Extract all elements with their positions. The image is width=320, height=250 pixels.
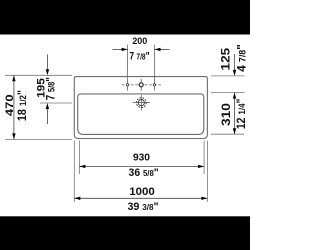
- svg-text:4 7/8": 4 7/8": [234, 44, 248, 72]
- dim 200 left arrowhead: [122, 48, 128, 51]
- washbasin inner bowl outline: [78, 94, 204, 134]
- dim 930 right extension line: [203, 141, 205, 175]
- dim 930 left extension line: [78, 141, 80, 175]
- washbasin outer rim outline: [74, 77, 207, 139]
- svg-text:200: 200: [132, 36, 147, 46]
- centre tap hole: [139, 83, 143, 87]
- dim 310 dimension line: [234, 93, 236, 135]
- dim 470 dimension line: [13, 75, 15, 139]
- bottom letterbox bar: [0, 216, 250, 250]
- svg-text:470: 470: [3, 94, 16, 116]
- svg-text:18 1/2": 18 1/2": [16, 90, 29, 121]
- dim 195 bottom arrowhead (pointing up): [46, 103, 49, 109]
- dim 195 top arrow tail: [46, 55, 48, 72]
- dim 200 right arrowhead: [155, 48, 161, 51]
- top letterbox bar: [0, 0, 250, 35]
- dim 930 left arrowhead: [79, 165, 85, 168]
- centre tap hole vertical line: [140, 79, 142, 91]
- dim 930 right arrowhead: [198, 165, 204, 168]
- svg-text:7 5/8": 7 5/8": [45, 77, 58, 100]
- drain outer dashed ring: [136, 98, 146, 108]
- drain inner circle: [138, 100, 144, 106]
- svg-text:7 7/8": 7 7/8": [129, 51, 149, 63]
- dim 470 top arrowhead: [12, 75, 15, 81]
- dim 1000 left extension line: [73, 141, 75, 203]
- svg-text:39 3/8": 39 3/8": [127, 201, 158, 213]
- svg-text:310: 310: [219, 103, 233, 126]
- svg-text:12 1/4": 12 1/4": [235, 98, 248, 129]
- dim 1000 right extension line: [206, 141, 208, 203]
- svg-text:930: 930: [133, 153, 150, 164]
- dim 195 bottom arrow tail: [46, 108, 48, 124]
- dim 930 dimension line: [79, 165, 204, 167]
- dim 470 bottom extension line: [5, 138, 72, 140]
- dim 200 dimension line left segment: [113, 48, 128, 50]
- dim 1000 right arrowhead: [201, 197, 207, 200]
- dim 1000 left arrowhead: [74, 197, 80, 200]
- svg-text:36 5/8": 36 5/8": [129, 167, 159, 179]
- left tap hole: [126, 84, 128, 86]
- dim 125 arrow tail: [234, 54, 236, 71]
- dim 195 top arrowhead (pointing down): [46, 69, 49, 75]
- svg-text:125: 125: [218, 48, 232, 71]
- left tap hole vertical line + 200 extension line: [127, 45, 129, 91]
- svg-text:1000: 1000: [129, 186, 154, 198]
- dim 125 arrowhead (pointing down): [233, 70, 236, 76]
- dim 200 dimension line right segment: [155, 48, 170, 50]
- overflow drain crosshair vertical: [140, 95, 142, 111]
- dim 470 bottom arrowhead: [12, 133, 15, 139]
- faucet centerline (dash-dot): [122, 84, 162, 86]
- dim 310 bottom extension line: [211, 133, 244, 135]
- right tap hole vertical line + 200 extension line: [154, 45, 156, 91]
- dim 310 bottom arrowhead: [233, 128, 236, 134]
- dim 125 mid extension line: [211, 92, 245, 94]
- dim 195 bottom extension line: [40, 102, 72, 104]
- right tap hole: [153, 84, 155, 86]
- dim 310 top arrowhead: [233, 93, 236, 99]
- dim 1000 dimension line: [74, 197, 207, 199]
- dim 470 top extension line: [5, 74, 72, 76]
- dim 125 top extension line: [211, 75, 245, 77]
- overflow drain crosshair horizontal: [133, 102, 150, 104]
